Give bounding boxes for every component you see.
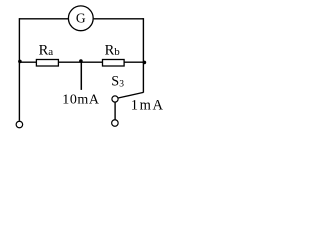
svg-text:S3: S3 <box>111 74 124 90</box>
wire top-right horizontal <box>94 18 144 20</box>
svg-text:G: G <box>76 11 86 26</box>
terminal bottom-right <box>112 120 119 127</box>
galvanometer G <box>68 6 93 31</box>
svg-text:10mA: 10mA <box>62 93 100 108</box>
wire left vertical <box>18 18 20 121</box>
wire Ra to middle junction <box>59 61 82 63</box>
wire right vertical <box>142 18 144 93</box>
terminal bottom-left <box>16 121 23 128</box>
svg-text:1mA: 1mA <box>131 98 165 114</box>
wire switch pivot to bottom terminal <box>114 102 116 119</box>
switch S3 <box>112 92 143 102</box>
wire middle junction to Rb <box>81 61 102 63</box>
resistor Rb <box>103 60 125 67</box>
junction dot middle <box>79 59 83 63</box>
wire 10mA tap stub <box>80 61 82 90</box>
wire top-left horizontal <box>19 18 68 20</box>
svg-text:Rb: Rb <box>105 43 121 59</box>
junction dot right <box>143 61 147 65</box>
wire bus left segment <box>19 61 36 63</box>
junction dot left <box>18 60 22 64</box>
resistor Ra <box>36 60 58 67</box>
wire bus right segment <box>124 61 143 63</box>
svg-text:Ra: Ra <box>39 43 54 59</box>
